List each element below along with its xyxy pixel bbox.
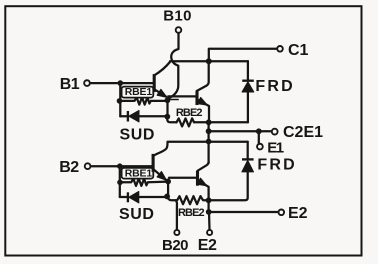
- svg-text:B2: B2: [59, 159, 79, 176]
- svg-text:RBE1: RBE1: [125, 86, 153, 98]
- svg-text:B10: B10: [163, 7, 191, 24]
- svg-text:B20: B20: [162, 237, 188, 254]
- svg-text:RBE2: RBE2: [178, 207, 205, 219]
- svg-text:RBE2: RBE2: [176, 107, 203, 119]
- svg-text:FRD: FRD: [257, 157, 296, 174]
- svg-text:B1: B1: [60, 76, 80, 93]
- svg-text:FRD: FRD: [255, 78, 294, 95]
- svg-text:C2E1: C2E1: [283, 124, 323, 141]
- svg-text:C1: C1: [288, 42, 309, 59]
- svg-text:SUD: SUD: [120, 126, 156, 143]
- svg-text:E1: E1: [267, 139, 284, 156]
- svg-text:E2: E2: [288, 205, 308, 222]
- svg-text:SUD: SUD: [119, 206, 155, 223]
- svg-text:E2: E2: [198, 237, 217, 254]
- svg-text:RBE1: RBE1: [125, 167, 153, 179]
